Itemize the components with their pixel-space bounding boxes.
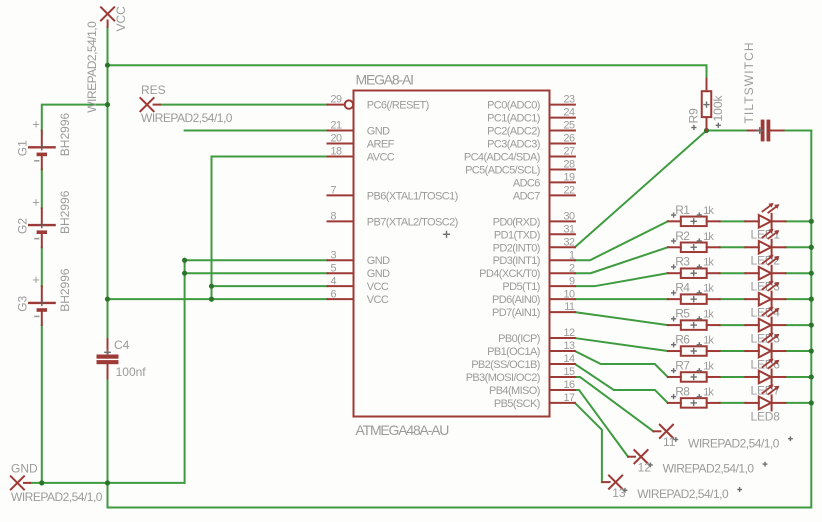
svg-text:G2: G2 xyxy=(15,218,29,234)
svg-text:ADC6: ADC6 xyxy=(513,177,540,189)
svg-text:PC5(ADC5/SCL): PC5(ADC5/SCL) xyxy=(465,164,540,176)
svg-text:13: 13 xyxy=(563,340,575,352)
svg-text:BH2996: BH2996 xyxy=(58,190,72,234)
svg-text:6: 6 xyxy=(331,288,337,300)
svg-text:7: 7 xyxy=(331,184,337,196)
svg-text:12: 12 xyxy=(638,460,652,474)
svg-text:WIREPAD2,54/1,0: WIREPAD2,54/1,0 xyxy=(663,462,755,476)
svg-text:PB3(MOSI/OC2): PB3(MOSI/OC2) xyxy=(466,372,540,384)
svg-text:C4: C4 xyxy=(114,338,130,352)
svg-text:VCC: VCC xyxy=(114,6,128,32)
svg-text:100nf: 100nf xyxy=(116,365,147,379)
svg-text:AVCC: AVCC xyxy=(367,151,395,163)
svg-text:31: 31 xyxy=(563,223,575,235)
svg-text:16: 16 xyxy=(563,379,575,391)
svg-text:R3: R3 xyxy=(675,255,690,269)
svg-text:1: 1 xyxy=(569,249,575,261)
svg-text:ATMEGA48A-AU: ATMEGA48A-AU xyxy=(356,422,450,438)
svg-text:15: 15 xyxy=(563,366,575,378)
svg-text:R5: R5 xyxy=(675,307,690,321)
svg-text:PC2(ADC2): PC2(ADC2) xyxy=(487,126,540,138)
svg-text:AREF: AREF xyxy=(367,139,395,151)
svg-text:RES: RES xyxy=(141,83,166,97)
svg-text:R6: R6 xyxy=(675,333,690,347)
svg-text:LED8: LED8 xyxy=(751,409,781,423)
svg-text:PC3(ADC3): PC3(ADC3) xyxy=(487,139,540,151)
svg-text:R7: R7 xyxy=(675,358,690,372)
svg-text:BH2996: BH2996 xyxy=(58,113,72,157)
svg-text:PC6(/RESET): PC6(/RESET) xyxy=(367,100,429,112)
svg-text:PB5(SCK): PB5(SCK) xyxy=(494,398,540,410)
svg-text:100k: 100k xyxy=(711,94,725,121)
svg-text:PC1(ADC1): PC1(ADC1) xyxy=(487,113,540,125)
svg-text:1k: 1k xyxy=(703,360,714,372)
svg-text:25: 25 xyxy=(563,120,575,132)
svg-text:20: 20 xyxy=(331,133,343,145)
svg-text:13: 13 xyxy=(612,486,626,500)
svg-text:PD1(TXD): PD1(TXD) xyxy=(494,229,540,241)
svg-text:1k: 1k xyxy=(703,309,714,321)
svg-text:PC4(ADC4/SDA): PC4(ADC4/SDA) xyxy=(464,151,540,163)
svg-text:PD7(AIN1): PD7(AIN1) xyxy=(492,307,540,319)
svg-text:1k: 1k xyxy=(703,386,714,398)
svg-text:PB6(XTAL1/TOSC1): PB6(XTAL1/TOSC1) xyxy=(367,190,458,202)
svg-text:+: + xyxy=(32,117,40,132)
svg-text:MEGA8-AI: MEGA8-AI xyxy=(356,72,414,88)
svg-text:PB1(OC1A): PB1(OC1A) xyxy=(487,346,540,358)
svg-text:R9: R9 xyxy=(687,108,701,124)
svg-text:PB7(XTAL2/TOSC2): PB7(XTAL2/TOSC2) xyxy=(367,216,458,228)
svg-text:4: 4 xyxy=(331,275,337,287)
svg-text:TILTSWITCH: TILTSWITCH xyxy=(742,41,756,123)
svg-text:GND: GND xyxy=(367,255,390,267)
svg-text:19: 19 xyxy=(563,172,575,184)
svg-text:3: 3 xyxy=(331,249,337,261)
svg-text:5: 5 xyxy=(331,262,337,274)
svg-text:PB0(ICP): PB0(ICP) xyxy=(498,333,540,345)
svg-text:WIREPAD2,54/1,0: WIREPAD2,54/1,0 xyxy=(11,490,103,504)
svg-text:1k: 1k xyxy=(703,205,714,217)
svg-text:GND: GND xyxy=(367,268,390,280)
svg-text:BH2996: BH2996 xyxy=(58,268,72,312)
svg-text:VCC: VCC xyxy=(367,281,389,293)
svg-text:GND: GND xyxy=(11,462,38,476)
svg-text:30: 30 xyxy=(563,210,575,222)
svg-text:WIREPAD2,54/1,0: WIREPAD2,54/1,0 xyxy=(637,487,729,501)
svg-text:8: 8 xyxy=(331,210,337,222)
svg-text:G3: G3 xyxy=(15,295,29,311)
svg-text:12: 12 xyxy=(563,327,575,339)
svg-text:1k: 1k xyxy=(703,231,714,243)
svg-text:10: 10 xyxy=(563,288,575,300)
svg-text:18: 18 xyxy=(331,146,343,158)
svg-text:PD4(XCK/T0): PD4(XCK/T0) xyxy=(479,268,540,280)
svg-text:27: 27 xyxy=(563,146,575,158)
svg-text:PD6(AIN0): PD6(AIN0) xyxy=(492,294,540,306)
svg-text:PD3(INT1): PD3(INT1) xyxy=(493,255,540,267)
svg-text:R2: R2 xyxy=(675,229,690,243)
svg-text:23: 23 xyxy=(563,94,575,106)
svg-text:G1: G1 xyxy=(15,140,29,156)
svg-text:9: 9 xyxy=(569,275,575,287)
svg-text:PC0(ADC0): PC0(ADC0) xyxy=(487,100,540,112)
svg-text:PD5(T1): PD5(T1) xyxy=(502,281,539,293)
svg-text:PD0(RXD): PD0(RXD) xyxy=(493,216,540,228)
svg-text:PB4(MISO): PB4(MISO) xyxy=(489,385,540,397)
svg-text:R1: R1 xyxy=(675,203,690,217)
svg-text:1k: 1k xyxy=(703,335,714,347)
svg-text:26: 26 xyxy=(563,133,575,145)
svg-text:R4: R4 xyxy=(675,281,690,295)
svg-text:2: 2 xyxy=(569,262,575,274)
svg-text:WIREPAD2,54/1,0: WIREPAD2,54/1,0 xyxy=(85,21,99,113)
svg-text:32: 32 xyxy=(563,236,575,248)
svg-text:11: 11 xyxy=(663,435,676,449)
svg-text:VCC: VCC xyxy=(367,294,389,306)
svg-text:+: + xyxy=(32,272,40,287)
svg-text:14: 14 xyxy=(563,353,575,365)
svg-text:24: 24 xyxy=(563,107,575,119)
svg-text:R8: R8 xyxy=(675,384,690,398)
svg-text:1k: 1k xyxy=(703,283,714,295)
svg-text:GND: GND xyxy=(367,126,390,138)
svg-text:29: 29 xyxy=(331,94,343,106)
svg-text:+: + xyxy=(32,194,40,209)
svg-text:17: 17 xyxy=(563,392,575,404)
svg-text:11: 11 xyxy=(564,301,575,313)
svg-text:22: 22 xyxy=(563,184,575,196)
svg-text:1k: 1k xyxy=(703,257,714,269)
svg-text:21: 21 xyxy=(331,120,343,132)
svg-text:WIREPAD2,54/1,0: WIREPAD2,54/1,0 xyxy=(688,436,780,450)
svg-text:28: 28 xyxy=(563,159,575,171)
svg-text:PD2(INT0): PD2(INT0) xyxy=(493,242,540,254)
svg-text:WIREPAD2,54/1,0: WIREPAD2,54/1,0 xyxy=(141,111,233,125)
svg-text:ADC7: ADC7 xyxy=(513,190,540,202)
svg-text:PB2(SS/OC1B): PB2(SS/OC1B) xyxy=(471,359,540,371)
